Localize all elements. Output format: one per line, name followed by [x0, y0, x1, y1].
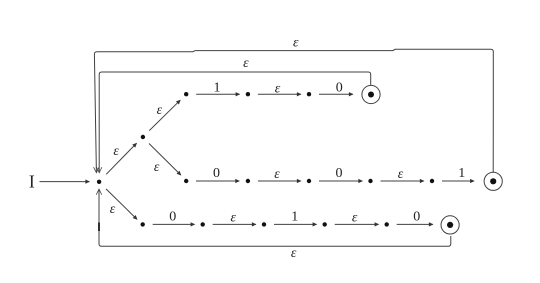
- wire: bottom branch 1-transition: [274, 223, 317, 225]
- node start S: [97, 180, 101, 184]
- node T2: [246, 92, 250, 96]
- svg-text:ε: ε: [243, 56, 249, 71]
- svg-text:0: 0: [213, 166, 220, 181]
- wire: outer epsilon return from right accept state to start: [94, 49, 493, 172]
- wire: epsilon start to split node: [106, 143, 136, 174]
- node T3: [307, 92, 311, 96]
- node split A: [141, 135, 145, 139]
- accept state right (double circle): [484, 172, 502, 190]
- wire: inner epsilon return from top accept state to start: [99, 72, 371, 173]
- wire: middle branch first 0-transition: [196, 180, 239, 182]
- svg-text:ε: ε: [154, 160, 160, 175]
- svg-text:ε: ε: [274, 167, 280, 182]
- node M3: [307, 179, 311, 183]
- svg-text:ε: ε: [275, 81, 281, 96]
- wire: epsilon split to middle branch: [149, 144, 181, 176]
- accept state bottom (double circle): [441, 216, 459, 234]
- node B4: [323, 222, 327, 226]
- wire: dark tick on bottom return vertical: [98, 223, 100, 232]
- node B3: [262, 222, 266, 226]
- svg-text:0: 0: [413, 210, 420, 225]
- wire: top branch epsilon transition: [258, 93, 301, 95]
- wire: middle branch first epsilon: [258, 180, 301, 182]
- svg-text:ε: ε: [157, 103, 163, 118]
- svg-text:ε: ε: [293, 36, 299, 51]
- accept state top (double circle): [362, 85, 380, 103]
- svg-text:1: 1: [214, 80, 221, 95]
- wire: top branch 0-transition into accept: [319, 93, 353, 95]
- svg-text:I: I: [29, 171, 35, 191]
- wire: bottom branch first 0-transition: [153, 223, 195, 225]
- node M5: [430, 179, 434, 183]
- svg-text:ε: ε: [352, 210, 358, 225]
- node M4: [368, 179, 372, 183]
- svg-text:ε: ε: [398, 167, 404, 182]
- wire: top branch 1-transition: [196, 93, 239, 95]
- svg-text:0: 0: [336, 80, 343, 95]
- wire: bottom epsilon return from bottom accept state to start: [99, 189, 451, 246]
- wire: bottom branch second epsilon: [335, 223, 379, 225]
- node T1: [184, 92, 188, 96]
- wire: bottom branch 0-transition into accept: [397, 223, 433, 225]
- wire: middle branch 1-transition into accept: [442, 180, 474, 182]
- svg-text:0: 0: [336, 166, 343, 181]
- wire: middle branch second 0-transition: [319, 180, 362, 182]
- node M1: [184, 179, 188, 183]
- node B2: [201, 222, 205, 226]
- svg-text:ε: ε: [113, 144, 119, 159]
- svg-text:1: 1: [291, 210, 298, 225]
- svg-text:ε: ε: [231, 210, 237, 225]
- wire: initial arrow I to start node: [40, 181, 90, 183]
- svg-text:ε: ε: [291, 246, 297, 261]
- wire: bottom branch first epsilon: [213, 223, 256, 225]
- node M2: [246, 179, 250, 183]
- svg-text:0: 0: [169, 210, 176, 225]
- wire: middle branch second epsilon: [381, 180, 424, 182]
- wire: epsilon start to bottom branch: [106, 189, 137, 219]
- svg-text:1: 1: [458, 166, 465, 181]
- svg-text:ε: ε: [110, 202, 116, 217]
- node B1: [141, 222, 145, 226]
- node B5: [385, 222, 389, 226]
- wire: epsilon split to top branch: [149, 100, 180, 131]
